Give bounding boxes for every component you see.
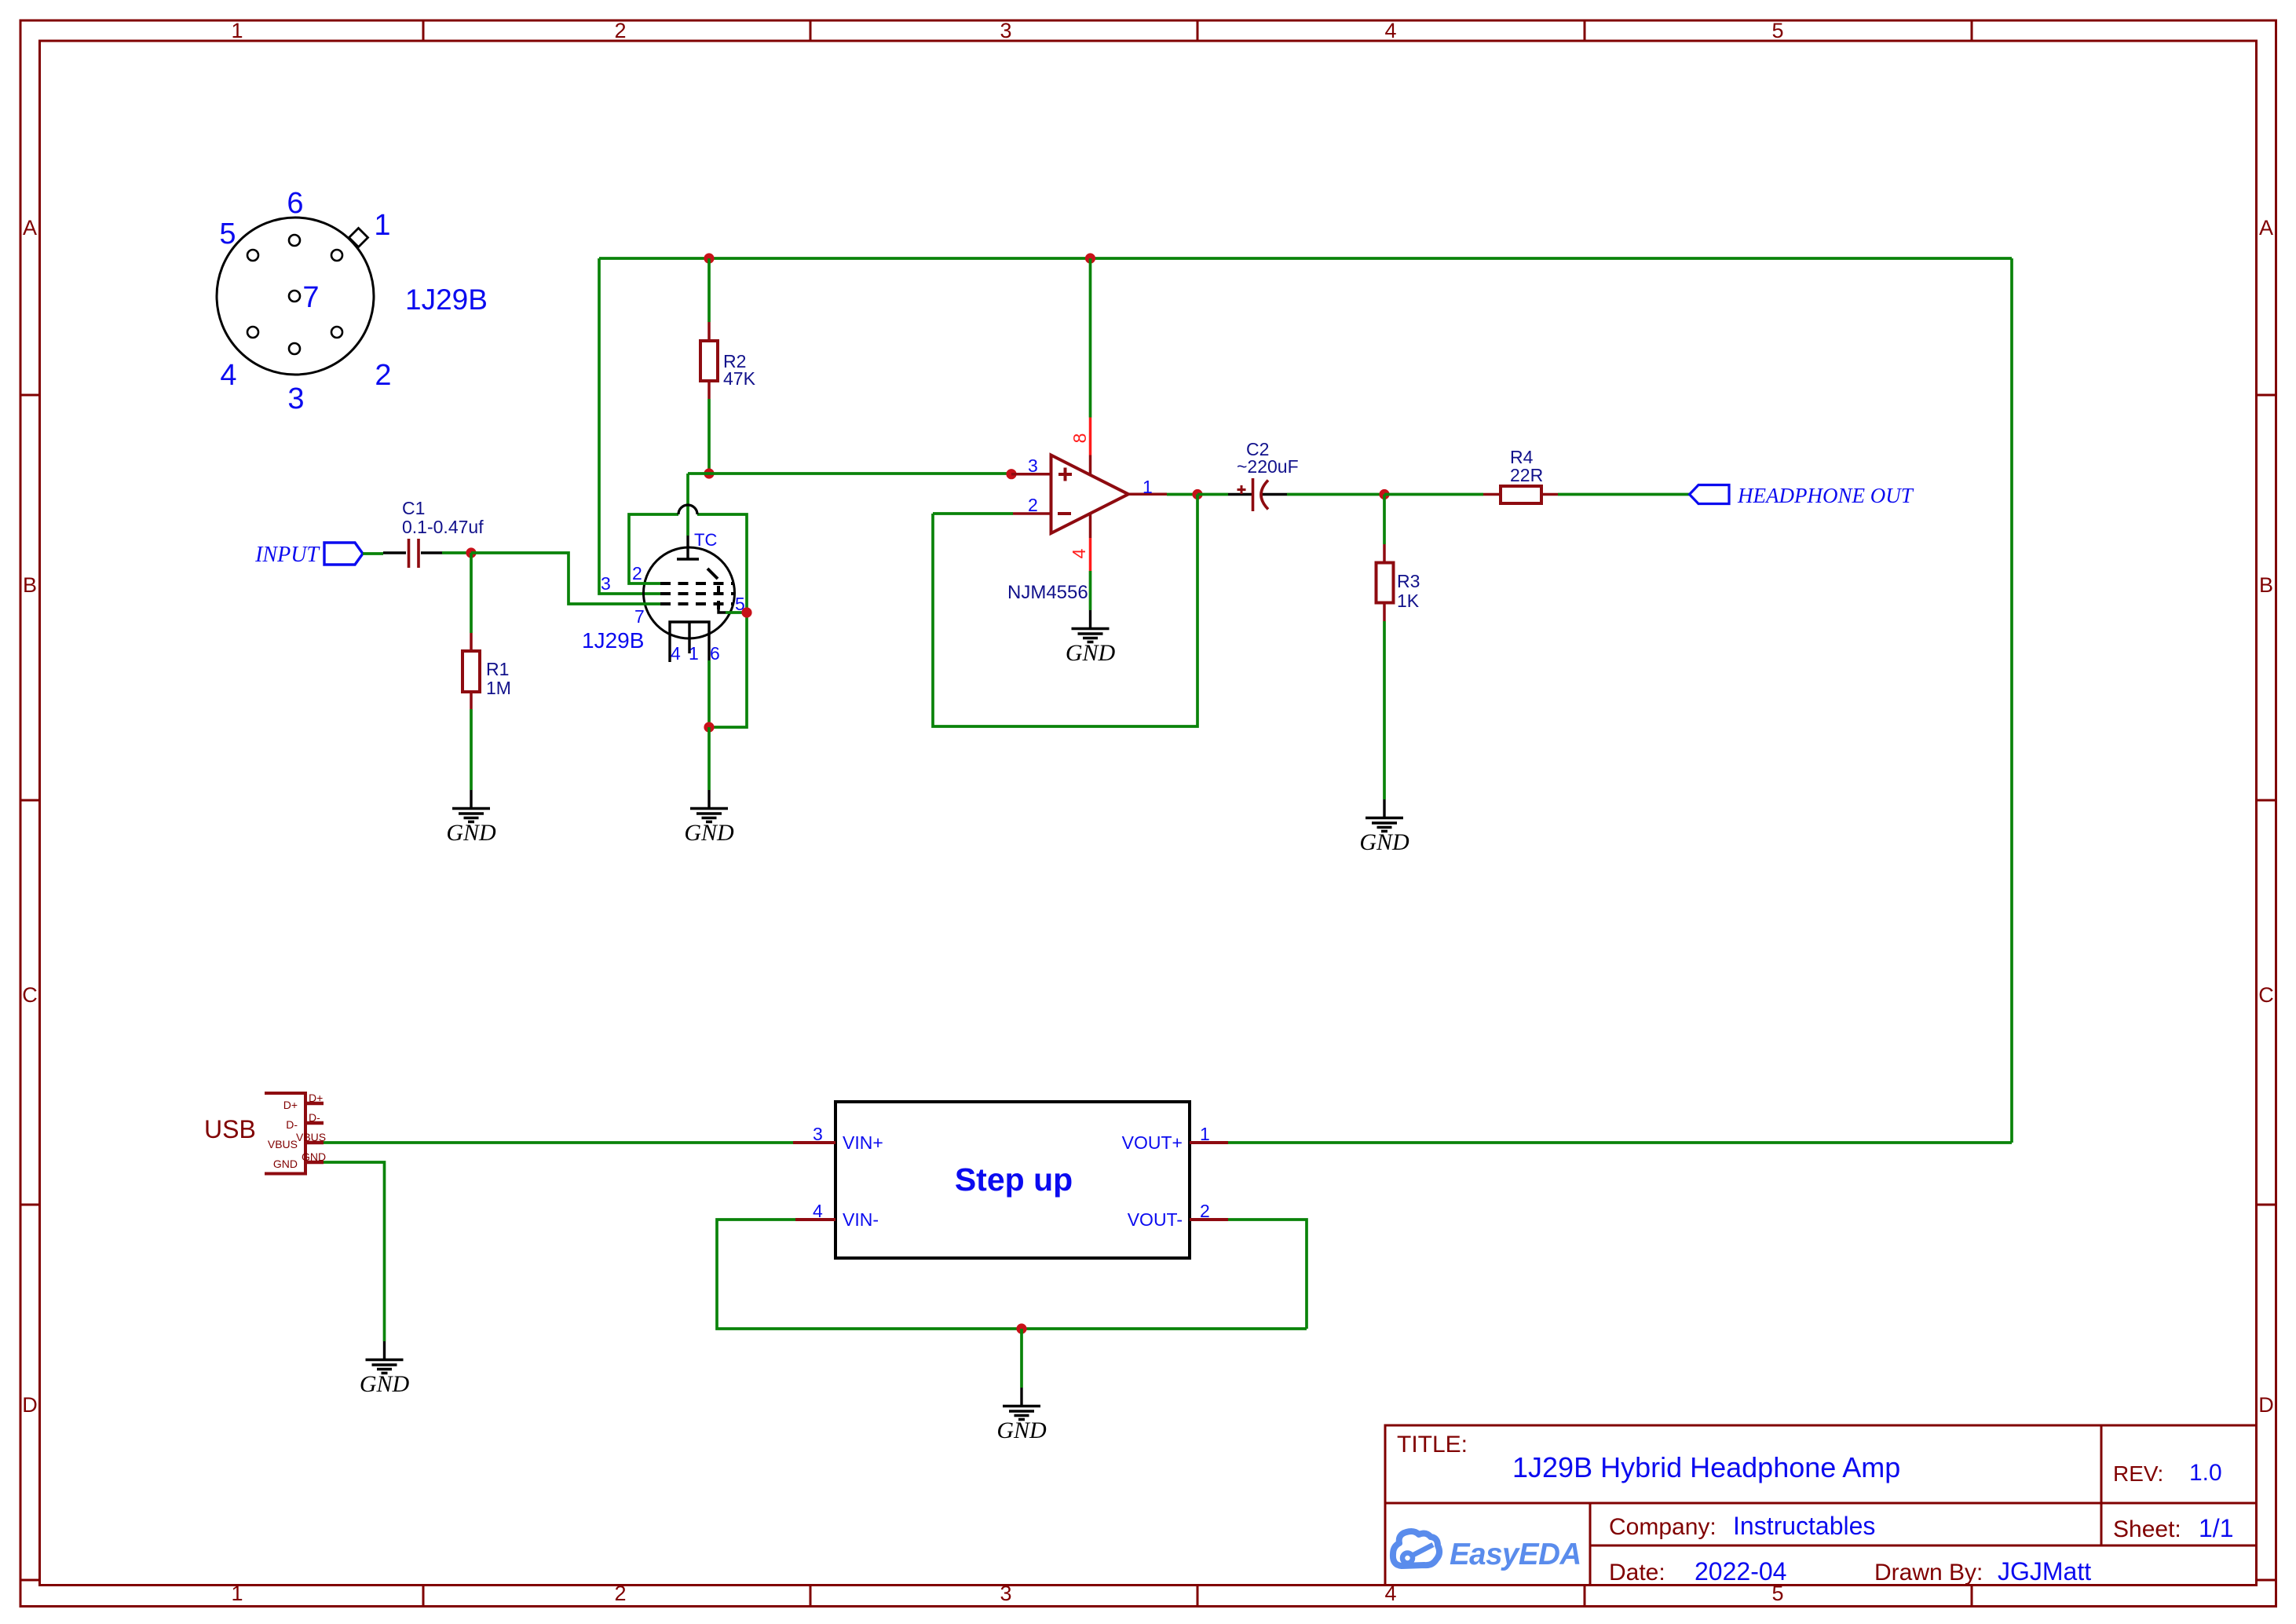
svg-text:6: 6 [710,643,720,664]
op-amp minus sign [1058,512,1071,515]
svg-text:R1: R1 [486,659,509,679]
op-amp pin 4 [1089,514,1092,538]
tube V1 top cap pin TC [677,536,699,559]
svg-text:2022-04: 2022-04 [1695,1557,1786,1586]
svg-text:3: 3 [813,1124,823,1144]
port INPUT [254,543,363,567]
tube socket pin hole 4 [247,327,258,338]
svg-text:TC: TC [694,530,717,550]
svg-text:D: D [22,1393,38,1417]
svg-text:USB: USB [204,1115,256,1143]
op-amp plus sign [1058,468,1072,481]
step-up pin 2 VOUT- [1190,1218,1228,1221]
op-amp pin 8 [1089,258,1092,418]
svg-text:VBUS: VBUS [268,1138,298,1150]
wire top rail right drop to VOUT+ [2010,258,2013,1143]
title block vertical divider logo cell [1589,1503,1592,1586]
junction output node [1192,489,1202,499]
title block outline [1385,1425,2257,1586]
wire input node to tube pin 7 [471,553,660,604]
svg-text:C: C [22,983,38,1007]
svg-text:7: 7 [302,281,319,314]
ground R1 [446,790,496,846]
svg-text:1: 1 [374,209,390,242]
tube V1 anode lead to pin 5 [718,609,726,613]
tube socket pin hole 3 [289,343,300,354]
svg-text:~220uF: ~220uF [1237,456,1299,477]
svg-text:VIN+: VIN+ [843,1132,883,1153]
frame column labels top [231,19,1783,42]
svg-text:R3: R3 [1397,571,1420,591]
wire VOUT- drop [1228,1220,1307,1329]
frame row ticks right [2257,395,2276,1580]
ground step-up [996,1388,1047,1443]
USB pin name labels inside [268,1099,298,1170]
tube V1 grid row pin 3 [660,592,733,595]
tube socket pin hole 1 [331,250,342,261]
wire tube box pin2 to pin5 [629,514,747,727]
junction top rail op-amp pin 8 [1085,253,1095,263]
svg-text:1J29B: 1J29B [582,628,644,653]
tube V1 grid row pin 7 [660,602,733,605]
svg-text:47K: 47K [723,368,756,389]
svg-text:A: A [2259,216,2273,240]
svg-text:REV:: REV: [2113,1461,2163,1486]
wire INPUT to C1 [363,552,383,555]
svg-text:1: 1 [231,1582,243,1605]
wire output to C2 [1197,493,1228,496]
junction op-amp plus input [1006,469,1016,479]
wire op-amp minus input feed [933,512,1013,515]
wire bottom node to ground [1020,1329,1023,1388]
resistor R2 [700,258,718,474]
tube socket key notch [349,228,367,247]
svg-text:D-: D- [286,1118,298,1131]
wire USB GND down [324,1162,385,1341]
svg-text:GND: GND [684,820,734,846]
svg-text:Company:: Company: [1609,1514,1717,1540]
svg-text:VOUT+: VOUT+ [1122,1132,1183,1153]
svg-text:VOUT-: VOUT- [1128,1209,1183,1230]
tube V1 anode diagonal [707,569,718,579]
svg-text:3: 3 [1000,19,1011,42]
wire C2 to R3 node [1287,493,1384,496]
svg-text:GND: GND [302,1150,326,1163]
frame row labels left [22,216,38,1417]
tube socket pin hole 5 [247,250,258,261]
svg-text:D: D [2258,1393,2274,1417]
wire tube bottom to ground [707,727,711,790]
op-amp U1 triangle [1051,455,1129,534]
svg-text:4: 4 [671,643,681,664]
step-up pin 4 VIN- [795,1218,835,1221]
svg-text:8: 8 [1069,433,1090,444]
svg-text:2: 2 [614,19,626,42]
USB pin D+ [305,1102,324,1106]
svg-text:Sheet:: Sheet: [2113,1516,2181,1542]
svg-text:1M: 1M [486,678,511,698]
junction R2 bottom node [704,468,714,478]
tube socket pin hole 7 [289,291,300,302]
svg-text:5: 5 [1771,19,1783,42]
svg-text:VIN-: VIN- [843,1209,879,1230]
wire hop bump over TC [678,505,697,514]
svg-text:A: A [23,216,37,240]
wire pin5 stub [726,611,747,614]
wire VIN- loop to bottom rail [717,1220,1307,1329]
svg-text:3: 3 [1028,455,1038,476]
frame row labels right [2258,216,2274,1417]
op-amp pin 2 [1013,512,1051,515]
wire TC drop [686,474,689,536]
capacitor C1 [383,539,442,568]
resistor R1 [462,553,480,790]
svg-text:VBUS: VBUS [296,1131,326,1143]
wire R4 to headphone port [1558,493,1689,496]
svg-text:4: 4 [220,359,236,392]
svg-text:EasyEDA: EasyEDA [1450,1538,1581,1571]
svg-text:Instructables: Instructables [1733,1512,1875,1540]
connector USB body [265,1093,305,1174]
svg-text:7: 7 [634,606,645,627]
svg-text:GND: GND [360,1371,410,1397]
frame column ticks top [423,20,1972,41]
ground R3 [1359,799,1409,855]
svg-text:GND: GND [273,1158,298,1170]
svg-text:C: C [2258,983,2274,1007]
ground USB [360,1341,410,1397]
svg-text:22R: 22R [1510,465,1543,485]
svg-text:Drawn By:: Drawn By: [1874,1560,1983,1586]
tube V1 1J29B envelope [644,547,735,638]
frame column labels bottom [231,1582,1783,1605]
svg-text:D+: D+ [309,1092,323,1104]
resistor R4 [1483,486,1558,503]
tube V1 filament [670,622,709,662]
wire op-amp output [1167,493,1197,496]
svg-text:1: 1 [1200,1124,1210,1144]
svg-text:6: 6 [287,187,303,220]
svg-text:1: 1 [1143,477,1153,497]
frame column ticks bottom [423,1586,1972,1607]
USB pin D- [305,1121,324,1125]
svg-text:4: 4 [1069,548,1089,558]
port HEADPHONE OUT [1690,484,1914,507]
tube socket pin labels [219,187,391,415]
svg-text:D-: D- [309,1111,320,1124]
junction input node [466,547,476,558]
wire feedback loop [933,495,1197,727]
svg-text:2: 2 [614,1582,626,1605]
junction top rail R2 [704,253,714,263]
title block vertical divider REV cell [2100,1425,2103,1545]
op-amp pin 1 [1128,493,1167,496]
svg-text:2: 2 [375,359,391,392]
wire VOUT+ to right rail [1228,1141,2012,1144]
svg-text:C1: C1 [402,498,425,518]
USB pin GND [305,1161,324,1165]
wire R3 node to R4 [1384,493,1483,496]
svg-text:2: 2 [1028,495,1038,515]
svg-text:GND: GND [1066,640,1116,666]
svg-text:1K: 1K [1397,591,1420,611]
svg-text:5: 5 [219,218,236,251]
svg-text:1J29B Hybrid Headphone Amp: 1J29B Hybrid Headphone Amp [1512,1451,1900,1483]
svg-text:4: 4 [1384,19,1396,42]
svg-text:1.0: 1.0 [2189,1460,2222,1486]
svg-text:Step up: Step up [955,1161,1073,1198]
svg-text:D+: D+ [283,1099,298,1111]
svg-text:HEADPHONE OUT: HEADPHONE OUT [1737,484,1914,507]
svg-text:B: B [23,573,37,597]
svg-text:GND: GND [446,820,496,846]
svg-text:GND: GND [996,1417,1047,1443]
tube socket J1 outline circle [217,218,374,375]
USB pin net labels outside [296,1092,326,1163]
svg-text:B: B [2259,573,2273,597]
svg-text:NJM4556: NJM4556 [1007,582,1088,603]
wire V+ top rail [599,257,2012,260]
junction bottom ground node [1016,1323,1026,1333]
EasyEDA logo cloud [1393,1531,1439,1566]
op-amp pin 3 [1011,473,1051,476]
svg-text:2: 2 [632,563,642,583]
junction R3 node [1379,489,1389,499]
wire C1 to node [442,551,471,554]
step-up module body [835,1102,1190,1258]
ground op-amp [1066,610,1116,666]
tube V1 anode vertical dashed [717,586,720,611]
resistor R3 [1377,495,1394,800]
frame row ticks left [20,395,40,1580]
tube socket pin hole 6 [289,235,300,246]
ground tube cathode [684,790,734,846]
tube socket pin hole 2 [331,327,342,338]
svg-text:1J29B: 1J29B [405,283,488,316]
svg-text:2: 2 [1200,1201,1210,1221]
tube V1 grid row pin 2 [660,582,733,585]
svg-text:GND: GND [1359,829,1409,855]
junction pin 5 node [741,607,751,617]
title block divider under Company row [1590,1545,2257,1547]
svg-text:3: 3 [1000,1582,1011,1605]
USB pin VBUS [305,1141,324,1145]
svg-text:TITLE:: TITLE: [1397,1432,1468,1458]
wire grid node to op-amp plus input [688,472,1011,475]
junction tube bottom node [704,722,714,732]
svg-text:INPUT: INPUT [254,543,320,567]
wire USB VBUS to step-up VIN+ [324,1141,793,1144]
svg-text:1: 1 [689,643,699,664]
title block divider under TITLE row [1385,1502,2257,1505]
svg-text:4: 4 [813,1201,823,1221]
svg-text:0.1-0.47uf: 0.1-0.47uf [402,517,484,537]
svg-text:JGJMatt: JGJMatt [1998,1557,2091,1586]
wire pin6 drop [707,660,711,727]
step-up pin 1 VOUT+ [1190,1141,1228,1144]
svg-text:3: 3 [601,573,611,594]
svg-text:1: 1 [231,19,243,42]
svg-text:3: 3 [287,382,304,415]
svg-text:1/1: 1/1 [2199,1514,2233,1542]
capacitor C2 [1228,478,1287,511]
step-up pin 3 VIN+ [793,1141,835,1144]
wire top rail left drop to tube pin 3 [599,258,660,594]
svg-text:Date:: Date: [1609,1560,1665,1586]
